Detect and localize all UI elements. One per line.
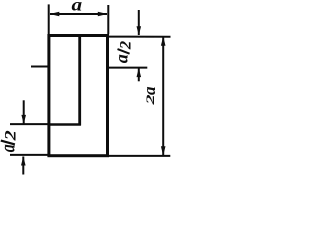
2a bottom arrowhead (down)	[161, 146, 166, 156]
bottom edge right extension	[108, 155, 171, 157]
arrow left of a	[50, 12, 60, 17]
right a/2 upper arrow shaft	[138, 10, 140, 35]
svg-text:2: 2	[145, 94, 157, 105]
svg-text:a: a	[140, 86, 159, 95]
top dim: left extension line	[48, 4, 50, 34]
svg-text:a: a	[0, 144, 19, 152]
left a/2 lower arrow shaft	[22, 157, 24, 175]
2a top arrowhead (up)	[161, 36, 166, 46]
inner vertical wall	[78, 35, 81, 126]
left tick at mid height	[31, 66, 49, 68]
outer rectangle of section (a wide, 2a tall)	[49, 36, 108, 156]
left a/2 lower arrowhead (up)	[21, 156, 26, 165]
right a/2 upper arrowhead (down)	[137, 26, 142, 35]
top dim: right extension line	[107, 5, 109, 34]
right a/2 lower arrow shaft	[138, 68, 140, 81]
arrow right of a	[98, 12, 108, 17]
right a/2 lower arrowhead (up)	[137, 68, 142, 77]
svg-text:a: a	[112, 54, 132, 63]
top edge right extension	[108, 36, 171, 38]
svg-text:2: 2	[2, 130, 19, 141]
svg-text:a: a	[71, 0, 82, 15]
right a/2 lower extension line	[108, 67, 147, 69]
2a dimension line	[162, 36, 164, 156]
left a/2 upper arrowhead (down)	[21, 115, 26, 124]
inner horizontal ledge with left extension	[48, 123, 81, 126]
left a/2 upper arrow shaft	[23, 100, 25, 123]
dimension line a	[50, 13, 107, 15]
bottom edge left extension	[10, 154, 49, 156]
